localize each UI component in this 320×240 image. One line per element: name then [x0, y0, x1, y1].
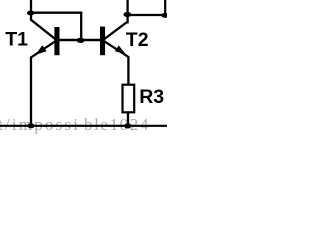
- wire: T2 collector vertical to top edge: [126, 0, 128, 24]
- svg-text:t/impossi: t/impossi: [0, 115, 80, 134]
- node E junction dot (T1 emitter to rail): [27, 123, 34, 128]
- wire: R3 to ground rail: [127, 113, 129, 127]
- svg-text:T1: T1: [5, 28, 28, 50]
- node D junction dot (top right): [161, 13, 168, 18]
- label T1: [5, 28, 28, 50]
- watermark text: [0, 115, 150, 134]
- wire: top-left horizontal to base descender: [31, 13, 81, 40]
- label R3: [139, 86, 164, 108]
- svg-text:ble1024: ble1024: [84, 115, 150, 134]
- node B junction dot (common base node): [77, 38, 85, 43]
- wire: T2 emitter vertical to R3: [127, 57, 129, 85]
- wire: base rail T1 to T2: [58, 39, 101, 41]
- wire: top-right horizontal rail: [127, 14, 166, 16]
- svg-text:T2: T2: [126, 29, 149, 51]
- node C junction dot (T2 collector): [124, 12, 132, 17]
- transistor T1: [31, 20, 60, 58]
- wire: bottom ground rail: [0, 125, 167, 127]
- wire: T1 emitter vertical down to ground rail: [30, 57, 32, 127]
- label T2: [126, 29, 149, 51]
- node F junction dot (R3 to rail): [124, 123, 131, 128]
- wire: left collector vertical from top edge: [30, 0, 32, 21]
- transistor T2: [100, 22, 129, 58]
- wire: right vertical to top edge: [164, 0, 166, 15]
- resistor R3: [123, 85, 135, 113]
- svg-text:R3: R3: [139, 86, 164, 108]
- node A junction dot (T1 collector/base tie): [27, 11, 34, 16]
